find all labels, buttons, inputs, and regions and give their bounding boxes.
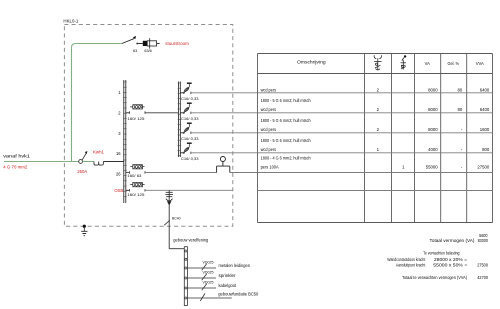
svg-text:VA: VA bbox=[425, 61, 430, 66]
svg-text:Kwh1: Kwh1 bbox=[93, 150, 105, 155]
svg-text:pers 100A: pers 100A bbox=[261, 165, 279, 170]
svg-text:55000 x 50% =: 55000 x 50% = bbox=[433, 263, 468, 268]
enclosure HKL0-1 dashed boundary bbox=[63, 18, 232, 226]
svg-text:28000 x 20% =: 28000 x 20% = bbox=[434, 257, 468, 262]
switch 63 (control circuit) bbox=[122, 36, 143, 53]
wire from fuse 160/63 (pers 100A circuit, terminal 26) bbox=[145, 172, 258, 174]
svg-text:1800 - 4 G 6 mm2; hull mtsch: 1800 - 4 G 6 mm2; hull mtsch bbox=[261, 155, 312, 160]
bonding branch: metalen leidingen bbox=[187, 260, 250, 270]
wire: meter to main busbar bbox=[103, 161, 123, 163]
svg-text:80: 80 bbox=[458, 107, 463, 112]
table row lines (circuit wires continue) bbox=[258, 93, 493, 191]
conductor mark BC40 bbox=[164, 217, 180, 226]
svg-text:6400: 6400 bbox=[480, 107, 490, 112]
wire: group 3 to table bbox=[191, 132, 258, 134]
svg-text:VD025: VD025 bbox=[203, 260, 214, 264]
svg-text:5600: 5600 bbox=[479, 233, 488, 238]
earthing conductor drop (PE) bbox=[168, 190, 170, 248]
svg-text:VD025: VD025 bbox=[203, 280, 214, 284]
busbar: lighting group rail (right) bbox=[178, 82, 182, 158]
kWh meter Kwh1 (current loops) bbox=[93, 150, 105, 166]
wire: group 1 to table bbox=[191, 92, 258, 94]
svg-text:Gel. %: Gel. % bbox=[448, 61, 460, 66]
svg-text:16: 16 bbox=[116, 151, 121, 156]
bonding branch: gebouwfundatie BC50 bbox=[187, 291, 259, 301]
svg-text:gebouwfundatie BC50: gebouwfundatie BC50 bbox=[218, 291, 259, 296]
svg-text:Te verwachten belasting:: Te verwachten belasting: bbox=[423, 251, 460, 256]
svg-text:sprinkler: sprinkler bbox=[219, 273, 237, 278]
wire: group 4 to table bbox=[191, 152, 258, 154]
breaker C16/0,33 #3 bbox=[180, 123, 198, 141]
svg-text:55000: 55000 bbox=[426, 165, 439, 170]
svg-text:4000: 4000 bbox=[428, 147, 438, 152]
fuse 160/63 (pers 100A circuit, terminal 26) bbox=[126, 165, 145, 178]
svg-text:VD025: VD025 bbox=[203, 270, 214, 274]
svg-text:27500: 27500 bbox=[477, 263, 488, 268]
svg-text:Aansluitpunt kracht: Aansluitpunt kracht bbox=[396, 263, 426, 268]
svg-text:C16/ 0,33: C16/ 0,33 bbox=[181, 117, 199, 121]
ground (enclosure PE) bbox=[81, 225, 87, 236]
wire: green link switch to meter bbox=[83, 161, 95, 163]
main earth bonding symbol bbox=[165, 192, 173, 204]
svg-text:stuurstroom: stuurstroom bbox=[165, 41, 189, 46]
totals block bbox=[387, 233, 488, 280]
svg-text:metalen leidingen: metalen leidingen bbox=[219, 263, 251, 268]
svg-text:160/ 125: 160/ 125 bbox=[127, 117, 144, 121]
svg-text:wcd pers: wcd pers bbox=[261, 107, 277, 112]
svg-text:C16/ 0,33: C16/ 0,33 bbox=[181, 97, 199, 101]
svg-text:1600: 1600 bbox=[480, 127, 490, 132]
svg-text:42700: 42700 bbox=[477, 275, 488, 280]
circuit schedule table: borders bbox=[258, 54, 493, 223]
node labels: terminal numbers bbox=[114, 90, 123, 193]
wire: to equipotential bar bbox=[169, 248, 184, 250]
svg-text:1800 - 5 G 6 mm2; hull mtsch: 1800 - 5 G 6 mm2; hull mtsch bbox=[261, 138, 312, 143]
svg-text:8000: 8000 bbox=[428, 87, 438, 92]
wire from fuse 160/125 (rail feed, terminal 2) bbox=[145, 112, 178, 114]
breaker C16/0,33 #1 bbox=[180, 83, 198, 101]
svg-text:VVA: VVA bbox=[476, 61, 484, 66]
fuse 63/6 (cartridge) bbox=[143, 38, 160, 53]
svg-text:6400: 6400 bbox=[480, 87, 490, 92]
svg-text:Wandcontactdoos kracht: Wandcontactdoos kracht bbox=[387, 257, 426, 262]
fuse 160/125 (rail feed, terminal 2) bbox=[126, 105, 145, 121]
svg-text:Totaal vermogen (VA): Totaal vermogen (VA) bbox=[430, 238, 476, 243]
svg-text:kabelgoot: kabelgoot bbox=[219, 283, 237, 288]
svg-text:C16/ 0,33: C16/ 0,33 bbox=[181, 157, 199, 161]
svg-text:BC40: BC40 bbox=[172, 217, 181, 221]
svg-text:83000: 83000 bbox=[478, 238, 489, 243]
svg-text:250A: 250A bbox=[77, 169, 87, 174]
svg-text:63/6: 63/6 bbox=[144, 49, 151, 53]
wire: incoming supply vanaf hvk1 (green) bbox=[3, 154, 78, 170]
svg-text:OSB: OSB bbox=[114, 188, 123, 193]
svg-text:8000: 8000 bbox=[428, 127, 438, 132]
indicator lamp on pers circuit bbox=[217, 157, 230, 173]
svg-text:vanaf hvk1: vanaf hvk1 bbox=[3, 154, 30, 160]
svg-text:wcd pers: wcd pers bbox=[261, 127, 277, 132]
svg-text:HKL0-1: HKL0-1 bbox=[63, 18, 78, 23]
wire: group 2 to table bbox=[191, 112, 258, 114]
svg-text:1800 - 5 G 6 mm2; hull mtsch: 1800 - 5 G 6 mm2; hull mtsch bbox=[261, 118, 312, 123]
header icon: aansluitpunt kracht bbox=[401, 55, 407, 69]
wire from fuse 160/125 (OSB feeder) bbox=[145, 189, 233, 191]
equipotential earth bar bbox=[184, 247, 187, 306]
table rows bbox=[261, 87, 490, 169]
svg-text:1800 - 5 G 6 mm2; hull mtsch: 1800 - 5 G 6 mm2; hull mtsch bbox=[261, 98, 312, 103]
wire: green riser to control circuit bbox=[72, 44, 76, 162]
svg-text:wcd pers: wcd pers bbox=[261, 147, 277, 152]
svg-text:wcd pers: wcd pers bbox=[261, 87, 277, 92]
busbar: main terminal strip (left) bbox=[123, 80, 127, 203]
svg-text:160/ 125: 160/ 125 bbox=[127, 193, 144, 197]
fuse 160/125 (OSB feeder) bbox=[126, 183, 145, 198]
svg-text:Omschrijving: Omschrijving bbox=[297, 59, 326, 64]
breaker C16/0,33 #2 bbox=[180, 103, 198, 121]
svg-text:800: 800 bbox=[482, 147, 490, 152]
svg-text:80: 80 bbox=[458, 87, 463, 92]
switch 250A (main incoming switch) bbox=[77, 151, 87, 174]
svg-text:gebouw vereffening: gebouw vereffening bbox=[173, 237, 209, 242]
wire: control circuit feed (green, top) bbox=[76, 43, 122, 45]
svg-text:26: 26 bbox=[116, 171, 121, 176]
svg-text:27500: 27500 bbox=[477, 165, 490, 170]
svg-text:8000: 8000 bbox=[428, 107, 438, 112]
svg-text:4 G 70 mm2: 4 G 70 mm2 bbox=[3, 165, 28, 170]
svg-text:C16/ 0,33: C16/ 0,33 bbox=[181, 137, 199, 141]
bonding branch: kabelgoot bbox=[187, 280, 236, 290]
header icon: wandcontactdoos bbox=[374, 55, 381, 70]
svg-text:160/ 63: 160/ 63 bbox=[127, 174, 141, 178]
breaker C16/0,33 #4 bbox=[180, 143, 198, 161]
bonding branch: sprinkler bbox=[187, 270, 236, 280]
svg-text:Totaal te verwachten vermogen: Totaal te verwachten vermogen (VVA) bbox=[402, 275, 468, 280]
svg-text:63: 63 bbox=[133, 49, 137, 53]
